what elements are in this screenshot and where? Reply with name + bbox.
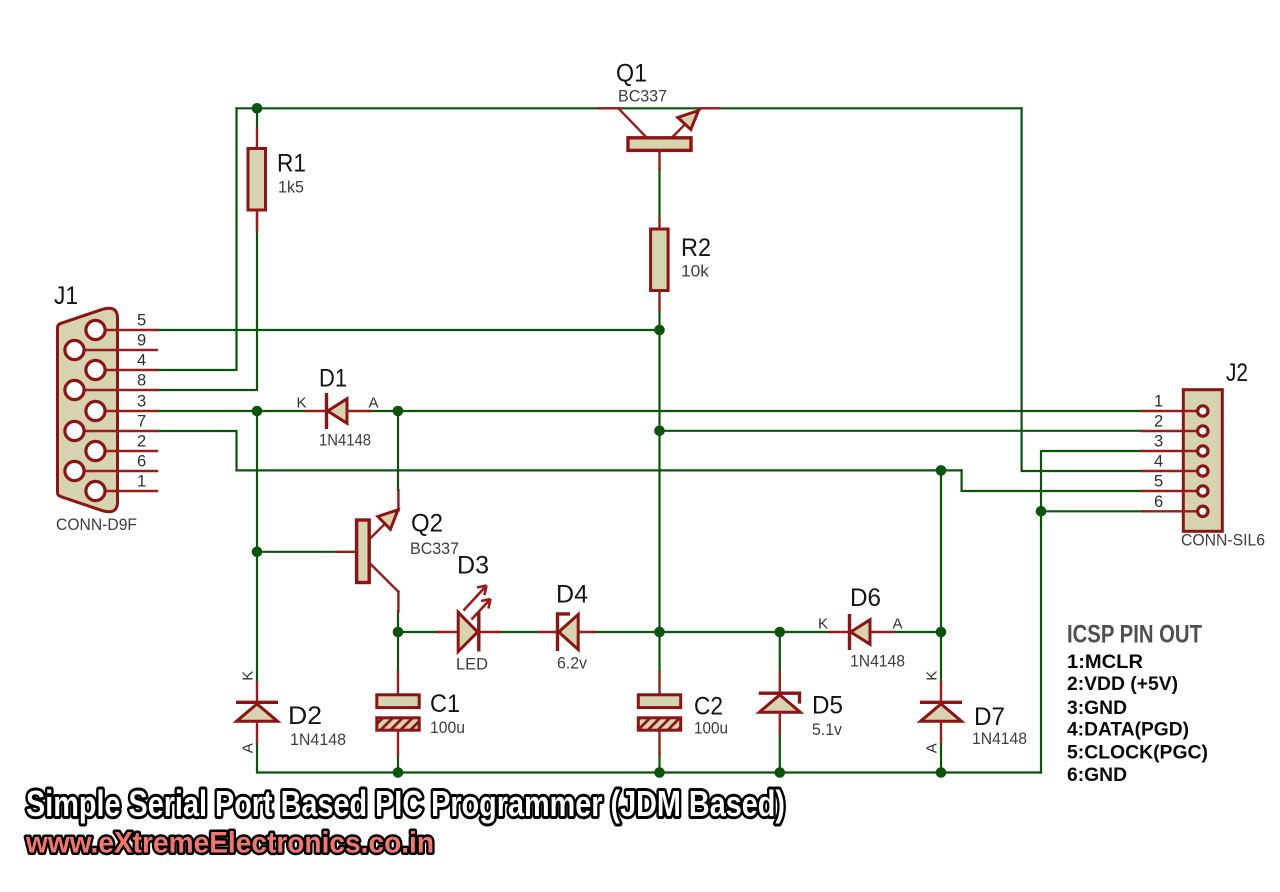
R1 bottom lead — [256, 210, 258, 231]
wire: Q1 base down to R2 top — [658, 170, 660, 219]
J1 pin 8 hole — [65, 380, 84, 399]
J1 pin 6 lead — [85, 470, 157, 472]
wire: center vertical R2 node down to LED row node — [658, 330, 660, 632]
diode D4 zener 6.2v — [539, 614, 594, 651]
svg-text:A: A — [924, 743, 941, 753]
diode D7 1N4148 — [920, 682, 962, 743]
svg-text:BC337: BC337 — [410, 539, 459, 558]
resistor R1 body — [248, 149, 266, 211]
capacitor C1 100u — [377, 672, 419, 754]
resistor R2 body — [651, 229, 669, 291]
R2 top lead — [658, 219, 660, 229]
capacitor C2 100u — [638, 672, 680, 754]
svg-text:A: A — [240, 743, 257, 753]
R2 bottom lead — [658, 291, 660, 311]
svg-text:6.2v: 6.2v — [557, 654, 587, 673]
svg-text:BC337: BC337 — [618, 87, 667, 106]
svg-text:1N4148: 1N4148 — [290, 730, 346, 749]
junction: bottom rail / C2 — [654, 767, 665, 778]
svg-text:1N4148: 1N4148 — [972, 729, 1027, 748]
svg-text:K: K — [297, 395, 307, 412]
wire: D5 column: LED row down to D5 cathode — [779, 632, 781, 672]
svg-text:7: 7 — [137, 413, 146, 431]
svg-text:LED: LED — [456, 655, 488, 674]
J2 pin 6 lead — [1142, 510, 1196, 512]
svg-text:3: 3 — [1154, 433, 1163, 451]
junction: Q2 base / D2 tee — [252, 547, 263, 558]
svg-text:5: 5 — [137, 312, 146, 330]
svg-text:1: 1 — [137, 473, 146, 491]
J2 pin 1 lead — [1142, 410, 1196, 412]
svg-text:100u: 100u — [430, 718, 465, 737]
svg-text:4: 4 — [137, 352, 146, 370]
wire: LED row: C2 node to D6 cathode — [660, 631, 830, 633]
wire: center node to J2 pin2 — [660, 430, 1142, 432]
svg-text:CONN-SIL6: CONN-SIL6 — [1181, 531, 1265, 550]
diode D6 1N4148 — [830, 614, 893, 650]
junction: clock row / D7 column — [936, 465, 947, 476]
svg-text:Q2: Q2 — [411, 510, 443, 538]
wire: C1 bottom to bottom rail — [397, 754, 399, 773]
svg-text:2: 2 — [1154, 413, 1163, 431]
junction: R2 bottom / J1 pin5 — [654, 325, 665, 336]
svg-text:K: K — [924, 671, 941, 681]
wire: LED row: node to LED anode — [398, 631, 437, 633]
wire: D1 anode to J2 pin1 — [369, 410, 1142, 412]
svg-text:10k: 10k — [681, 262, 709, 281]
J2 pin 5 lead — [1142, 490, 1196, 492]
svg-text:ICSP PIN OUT: ICSP PIN OUT — [1067, 621, 1202, 649]
junction: center / J2 pin2 tee — [654, 426, 665, 437]
svg-text:6: 6 — [137, 453, 146, 471]
svg-text:2:VDD (+5V): 2:VDD (+5V) — [1067, 674, 1178, 695]
J1 pin 5 lead — [106, 329, 157, 331]
junction: top rail / R1 — [252, 103, 263, 114]
svg-text:3:GND: 3:GND — [1067, 698, 1127, 719]
svg-text:2: 2 — [137, 433, 146, 451]
J2 pin 3 lead — [1142, 450, 1196, 452]
junction: D1 anode / Q2 emitter tee — [393, 406, 404, 417]
transistor Q1 BC337 — [599, 108, 720, 169]
D3 emission arrow 2 — [472, 599, 491, 620]
svg-text:K: K — [240, 671, 257, 681]
svg-text:9: 9 — [137, 332, 146, 350]
junction: bottom rail / D7 — [936, 767, 947, 778]
J1 pin 4 lead — [106, 369, 157, 371]
J1 pin 1 lead — [106, 490, 157, 492]
junction: LED row / C1 — [393, 627, 404, 638]
svg-text:D2: D2 — [288, 702, 322, 730]
svg-text:D6: D6 — [850, 584, 881, 612]
wire: ground row step down to J2 pin5 — [962, 470, 1142, 491]
svg-text:1k5: 1k5 — [278, 178, 304, 197]
J2 pin 1 hole — [1198, 406, 1208, 416]
R1 top lead — [256, 129, 258, 149]
J2 pin 6 hole — [1198, 506, 1208, 516]
svg-text:D1: D1 — [319, 365, 347, 393]
wire: D5 anode to bottom rail — [779, 733, 781, 773]
svg-text:R2: R2 — [681, 234, 711, 262]
svg-text:C2: C2 — [694, 693, 723, 721]
svg-text:A: A — [893, 616, 903, 633]
svg-text:3: 3 — [137, 393, 146, 411]
junction: LED row / D7 — [936, 627, 947, 638]
wire: J1 pin7 down-jog to ground row — [157, 431, 962, 470]
diode D3 LED — [437, 586, 500, 652]
svg-text:4:DATA(PGD): 4:DATA(PGD) — [1067, 720, 1189, 741]
wire: LED row: LED cathode to D4 anode — [500, 631, 540, 633]
svg-text:1:MCLR: 1:MCLR — [1067, 652, 1143, 673]
wire: LED row: D4 cathode to C2 node — [594, 631, 659, 633]
J1 pin 5 hole — [86, 320, 105, 339]
svg-text:CONN-D9F: CONN-D9F — [56, 515, 137, 534]
junction: LED row / C2 — [654, 627, 665, 638]
svg-text:6: 6 — [1154, 493, 1163, 511]
svg-text:5.1v: 5.1v — [812, 720, 842, 739]
diode D5 5.1v — [759, 673, 801, 734]
junction: bottom rail / D5 — [775, 767, 786, 778]
J2 pin 4 lead — [1142, 470, 1196, 472]
junction: ground riser / J2 pin6 — [1036, 506, 1047, 517]
J2 pin 5 hole — [1198, 486, 1208, 496]
connector J1 CONN-D9F body — [58, 308, 118, 512]
junction: D1 cathode tee at x257 — [252, 406, 263, 417]
junction: LED row / D5 — [775, 627, 786, 638]
wire: J1 pin3 row through D1 to J2 pin1 — [157, 410, 307, 412]
svg-text:D3: D3 — [457, 552, 489, 580]
J1 pin 1 hole — [86, 481, 105, 500]
wire: C1 column: LED node down to C1 top — [397, 632, 399, 672]
svg-text:8: 8 — [137, 372, 146, 390]
svg-text:D7: D7 — [974, 703, 1005, 731]
wire: D1 node down to Q2 emitter — [397, 411, 399, 490]
J1 pin 8 lead — [85, 389, 157, 391]
J1 pin 7 lead — [85, 430, 157, 432]
J1 pin 2 lead — [106, 450, 157, 452]
wire: C2 column: node down to C2 top — [658, 632, 660, 672]
svg-text:100u: 100u — [694, 719, 728, 738]
diode D1 1N4148 — [307, 393, 370, 429]
wire: J1 pin4 up to top rail — [157, 108, 237, 370]
J1 pin 7 hole — [65, 421, 84, 440]
J1 pin 3 lead — [106, 410, 157, 412]
J1 pin 2 hole — [86, 441, 105, 460]
svg-text:D5: D5 — [812, 692, 843, 720]
svg-text:5:CLOCK(PGC): 5:CLOCK(PGC) — [1067, 743, 1208, 764]
svg-text:1N4148: 1N4148 — [850, 652, 905, 671]
svg-text:R1: R1 — [277, 150, 306, 178]
J1 pin 4 hole — [86, 360, 105, 379]
J2 pin 3 hole — [1198, 446, 1208, 456]
wire: top rail from left corner to top-right corner — [237, 107, 1022, 109]
svg-text:6:GND: 6:GND — [1067, 765, 1127, 786]
wire: D1 row node down to Q2 base node and D2 — [256, 411, 258, 682]
J1 pin 9 hole — [65, 340, 84, 359]
svg-text:4: 4 — [1154, 453, 1163, 471]
transistor Q2 BC337 — [337, 490, 399, 611]
wire: R1 bottom down and left to J1 pin8 — [157, 211, 257, 390]
wire: R2 bottom to pin5 node — [658, 310, 660, 330]
svg-text:Simple Serial Port Based PIC P: Simple Serial Port Based PIC Programmer … — [26, 783, 785, 824]
J1 pin 3 hole — [86, 401, 105, 420]
wire: LED row: D6 anode to D7 node — [892, 631, 941, 633]
svg-text:Q1: Q1 — [616, 60, 647, 88]
wire: D2 anode to bottom rail corner — [257, 743, 1041, 773]
connector J2 CONN-SIL6 body — [1183, 390, 1222, 532]
junction: bottom rail / C1 — [393, 767, 404, 778]
J1 pin 9 lead — [85, 349, 157, 351]
wire: top rail junction down to R1 top — [256, 108, 258, 128]
svg-text:1N4148: 1N4148 — [319, 431, 371, 450]
svg-text:www.eXtremeElectronics.co.in: www.eXtremeElectronics.co.in — [25, 827, 434, 860]
svg-text:J2: J2 — [1226, 359, 1248, 387]
J2 pin 4 hole — [1198, 466, 1208, 476]
svg-text:A: A — [369, 395, 379, 412]
wire: J1 pin5 right to R2 bottom node — [157, 329, 660, 331]
wire: C2 bottom to bottom rail — [658, 754, 660, 773]
J2 pin 2 lead — [1142, 430, 1196, 432]
J1 pin 6 hole — [65, 461, 84, 480]
svg-text:J1: J1 — [54, 282, 78, 310]
wire: bottom rail up right side to J2 pin3 — [1041, 451, 1142, 773]
svg-text:D4: D4 — [556, 581, 588, 609]
wire: Q2 collector down to LED row node — [397, 612, 399, 633]
wire: Q2 base wire — [257, 551, 337, 553]
wire: ground node to J2 pin6 — [1041, 510, 1142, 512]
svg-text:K: K — [818, 616, 828, 633]
wire: top rail down right side to J2 pin4 — [1022, 108, 1142, 471]
svg-text:C1: C1 — [430, 690, 460, 718]
svg-text:1: 1 — [1154, 393, 1163, 411]
wire: clock node down through D6 node to D7 cathode — [940, 470, 942, 682]
diode D2 1N4148 — [236, 682, 278, 743]
wire: D7 anode to bottom rail — [940, 743, 942, 773]
svg-text:5: 5 — [1154, 473, 1163, 491]
D3 emission arrow 1 — [464, 586, 487, 611]
J2 pin 2 hole — [1198, 426, 1208, 436]
